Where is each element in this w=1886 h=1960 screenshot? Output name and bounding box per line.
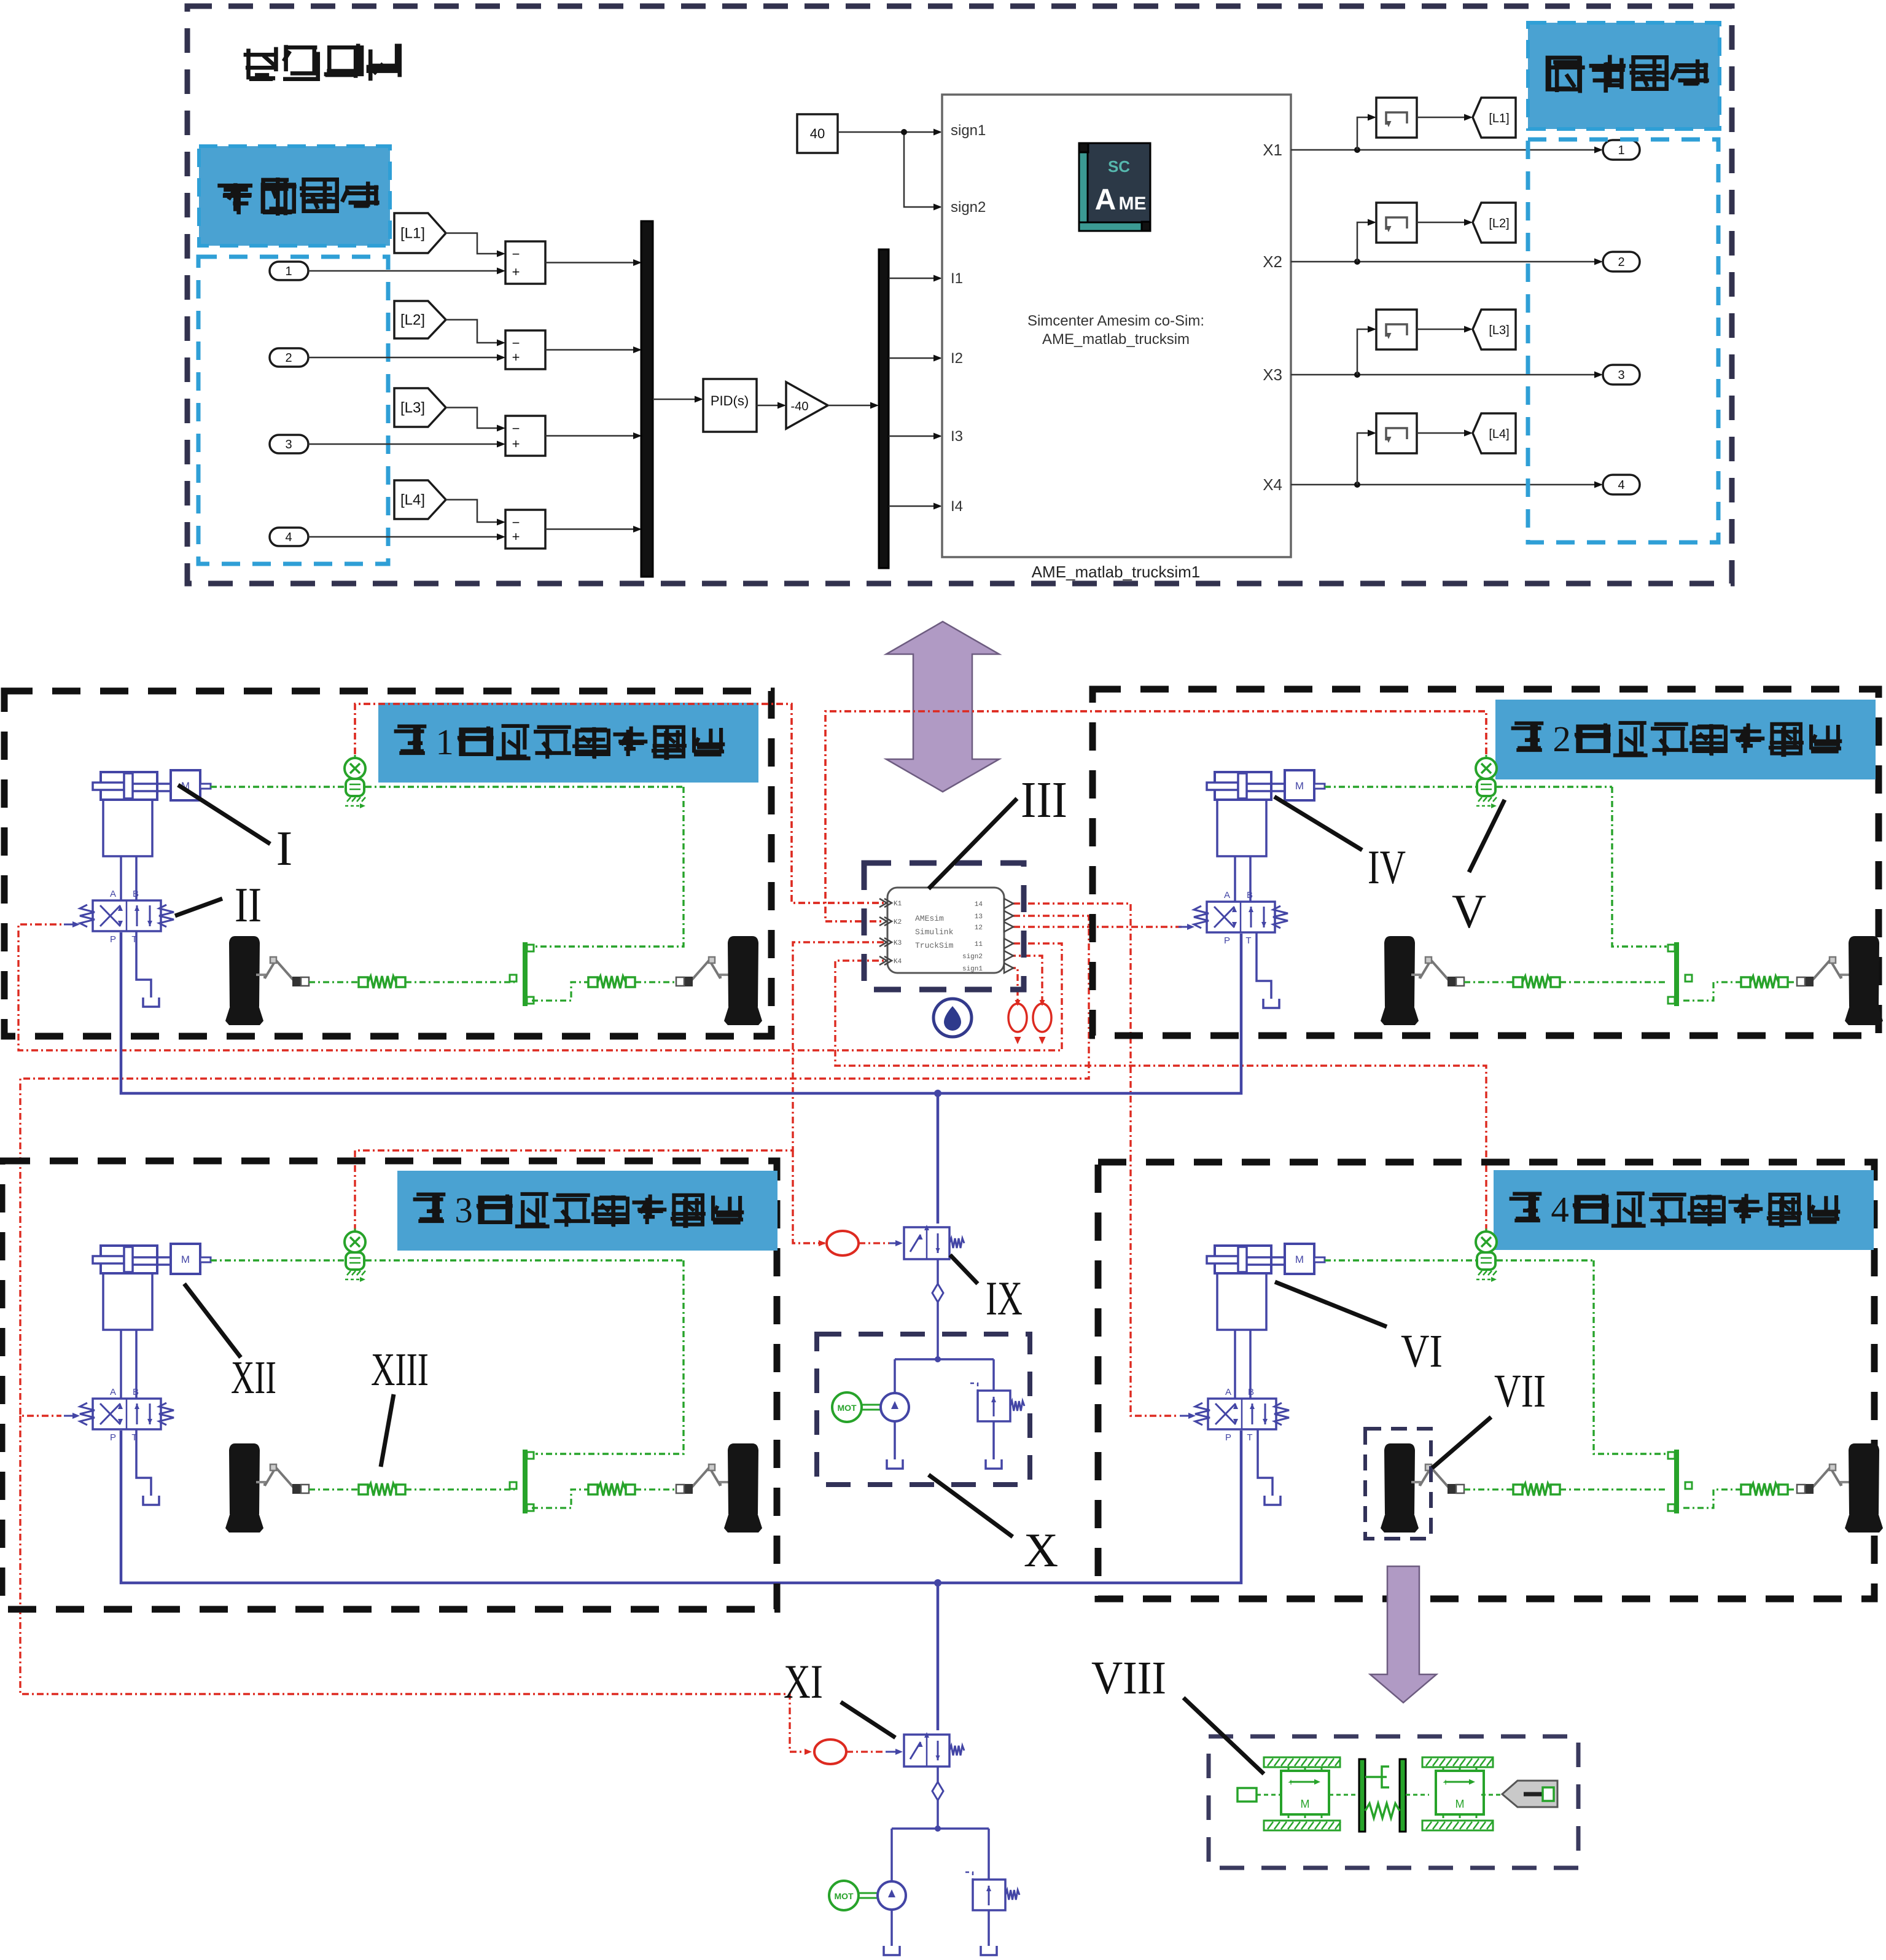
label I [178,785,270,844]
svg-text:IV: IV [1368,840,1406,894]
left wheel axle3 [229,1443,260,1514]
svg-text:PID(s): PID(s) [711,393,749,408]
tie-rod spring [1741,977,1750,987]
pipe B [135,1330,138,1399]
svg-text:−: − [512,335,520,351]
dashed region theoretical inputs [198,257,388,564]
cylinder shell [103,800,152,856]
cylinder shell [1217,800,1266,856]
svg-text:14: 14 [975,901,983,908]
PID block [703,379,757,432]
wire demux to I port [889,435,939,437]
wire goto to sum [446,320,502,343]
water drop icon [933,999,972,1037]
check valve below IX [937,1259,939,1284]
valve XI [904,1735,949,1767]
blue drop to valve IX [937,1093,940,1224]
check valve below XI [937,1767,939,1782]
svg-text:K2: K2 [894,919,902,926]
memory block 4 [1376,413,1417,453]
directional valve body [93,900,161,931]
directional valve body [93,1399,161,1429]
svg-text:[L2]: [L2] [400,312,425,329]
label X [929,1475,1013,1537]
wire branch to memory [1357,222,1373,262]
tank line valve1 [136,931,151,998]
axle 4 label box [1494,1171,1873,1249]
svg-text:B: B [1248,1387,1254,1397]
right wheel axle4 [1849,1443,1879,1514]
svg-text:−: − [512,515,520,530]
tie-rod spring [588,1485,598,1494]
steering trapezoid bracket [523,942,528,1006]
right chain axle4 [1683,1490,1741,1508]
svg-text:M: M [1455,1798,1465,1810]
svg-text:+: + [1288,1778,1293,1788]
red line TH2 over label [825,711,1486,921]
mass block M [1285,770,1314,800]
svg-text:1: 1 [285,265,292,278]
VIII end connector [1502,1781,1557,1807]
memory block 2 [1376,203,1417,243]
svg-text:−: − [512,246,520,262]
axle 1 subsystem dashed box [4,691,771,1036]
label box lilunweiyi [199,146,390,246]
svg-text:I2: I2 [951,350,963,367]
relief valve 2 [973,1880,1005,1910]
wire constant to sign1 [838,131,939,133]
svg-text:X2: X2 [1263,252,1282,271]
wire gain to demux [828,405,876,407]
svg-text:sign2: sign2 [951,199,986,216]
svg-text:2: 2 [1618,256,1624,269]
VIII spring-damper [1359,1759,1365,1832]
steering knuckle arm [1411,1482,1420,1486]
axle 2 label box [1496,700,1875,779]
svg-text:+: + [512,349,520,365]
pipe A [120,1330,122,1399]
wire memory to from tag [1417,329,1469,330]
svg-text:3: 3 [454,1190,472,1230]
directional valve body [1207,902,1275,932]
svg-text:K4: K4 [894,958,902,966]
pressure sensor [1486,755,1487,760]
pump [881,1393,909,1421]
steering detail dashed box VIII [1209,1736,1578,1868]
AME logo [1079,152,1088,231]
red line port12 to valve2 [1013,926,1182,927]
VIII left port [1237,1788,1257,1802]
steering trapezoid bracket [1674,1450,1679,1513]
relief valve [978,1391,1010,1421]
svg-text:A: A [1095,184,1116,216]
pressure sensor [354,755,356,760]
VIII mass 2 with guides [1422,1757,1493,1767]
svg-text:XII: XII [231,1352,276,1404]
svg-text:12: 12 [975,924,983,932]
svg-text:+: + [512,436,520,451]
svg-text:TruckSim: TruckSim [915,941,954,950]
mass block M [171,770,200,800]
steering knuckle arm [1411,975,1420,978]
label kongzhimokuai [244,47,276,80]
blue drop to valve XI [937,1583,940,1730]
gain -40 [786,382,828,429]
steering knuckle arm [720,1482,729,1486]
wire memory to from tag [1417,222,1469,224]
svg-text:A: A [110,1387,116,1397]
wire sum to mux [545,435,639,437]
VIII mass 1 with guides [1264,1757,1340,1767]
hydraulic cylinder body [101,1246,157,1273]
svg-text:3: 3 [1618,369,1624,382]
outport oval 4 [1603,475,1640,494]
red line TH2 sensor2 to K2 [825,711,1486,921]
wire inport to sum [308,536,502,538]
svg-text:4: 4 [1618,478,1624,492]
pilot signal oval XI [814,1739,846,1764]
inport 2 [270,348,308,367]
label XIII [381,1394,394,1467]
steering knuckle arm [256,1482,265,1486]
svg-text:M: M [1295,780,1304,792]
mux bar [641,221,653,577]
sum block 1 [505,241,545,284]
svg-text:3: 3 [285,438,292,451]
sum block 3 [505,416,545,456]
svg-text:[L2]: [L2] [1489,217,1509,230]
memory block 3 [1376,310,1417,349]
green line cylinder to sensor to bracket (axle3) [211,1259,345,1261]
hydraulic cylinder body [101,772,157,800]
pump unit X piping [895,1358,994,1361]
steering trapezoid bracket [1674,942,1679,1006]
pipe A [1234,856,1236,902]
right wheel axle1 [728,936,758,1007]
pipe A [1234,1330,1236,1399]
valve pilot feed arrow [64,924,76,926]
svg-text:P: P [1224,935,1230,946]
wire goto to sum [446,233,502,254]
interface dashed box III [864,863,1024,990]
blue supply bus upper [121,932,1241,1093]
wire sum to mux [545,262,639,264]
wire goto to sum [446,408,502,429]
dashed region actual outputs [1528,139,1718,542]
accumulator 2 [1033,1004,1051,1032]
axle 1 label box [379,703,758,782]
svg-text:B: B [1247,890,1253,900]
outport oval 1 [1603,140,1640,160]
wire inport to sum [308,443,502,445]
left wheel axle4 [1384,1443,1415,1514]
svg-text:VII: VII [1494,1365,1546,1417]
svg-text:sign2: sign2 [962,953,983,961]
motor MOT [832,1392,862,1422]
pump 2 [878,1881,906,1910]
tank line valve4 [1258,1429,1272,1496]
label VII [1432,1417,1491,1468]
svg-text:X: X [1024,1523,1058,1577]
svg-text:40: 40 [810,126,825,141]
svg-text:[L1]: [L1] [1489,112,1509,125]
wheel VII dashed box [1365,1429,1431,1539]
svg-text:II: II [235,878,262,932]
right wheel axle2 [1849,936,1879,1007]
blue supply bus lower [121,1431,1241,1583]
steering knuckle arm [256,975,265,978]
inport 4 [270,528,308,546]
label IX [950,1255,978,1284]
red line port11 to valve1 [18,924,1062,1050]
svg-text:A: A [1224,890,1230,900]
pipe B [135,856,138,900]
svg-text:AME_matlab_trucksim1: AME_matlab_trucksim1 [1032,563,1201,581]
inport 3 [270,435,308,453]
tie-rod spring [359,1485,368,1494]
wire X4 to outport [1291,484,1599,486]
pump unit XI piping [892,1827,989,1830]
valve IX [904,1227,949,1259]
label VIII [1183,1698,1264,1774]
red line port14 to valve4 [1013,904,1176,1416]
svg-text:P: P [1225,1432,1231,1443]
wire inport to sum [308,357,502,359]
svg-text:ME: ME [1119,193,1147,214]
axle 2 subsystem dashed box [1093,689,1879,1036]
goto tag [L1] [394,213,446,253]
directional valve body [1208,1399,1276,1429]
wire X2 to outport [1291,261,1599,263]
wire branch to memory [1357,117,1373,150]
wire X1 to outport [1291,149,1599,151]
interface block AMEsim/Simulink/TruckSim [887,888,1004,973]
svg-text:AMEsim: AMEsim [915,914,944,923]
svg-text:A: A [110,889,116,899]
from tag [L3] [1473,310,1516,349]
right wheel axle3 [728,1443,758,1514]
red line TH1 over label [355,704,884,903]
cylinder shell [1217,1273,1266,1330]
valve pilot feed arrow [64,1415,76,1417]
wire branch to memory [1357,329,1373,375]
red line sign1 to accumulator [1009,968,1018,1001]
pressure sensor [1486,1228,1487,1233]
axle 4 subsystem dashed box [1098,1162,1874,1599]
svg-text:VI: VI [1401,1326,1443,1377]
steering knuckle arm [720,975,729,978]
wire demux to I port [889,506,939,507]
outport oval 3 [1603,365,1640,385]
red line TH1 sensor1 to K1 [355,704,884,903]
svg-text:A: A [1225,1387,1231,1397]
svg-text:III: III [1021,771,1067,829]
pilot signal oval IX [827,1231,859,1255]
svg-text:SC: SC [1108,157,1130,176]
svg-text:[L1]: [L1] [400,225,425,242]
motor MOT 2 [829,1881,859,1910]
wire sum to mux [545,528,639,530]
red line sensor4 to K4 [835,961,1486,1231]
svg-text:sign1: sign1 [951,122,986,139]
label V [1469,800,1505,872]
svg-text:11: 11 [975,941,983,948]
svg-text:Simulink: Simulink [915,927,954,937]
green dash to left spring [309,981,359,983]
tie-rod spring [1741,1485,1750,1494]
purple exchange arrow [886,622,999,792]
svg-text:[L4]: [L4] [1489,428,1509,441]
svg-text:13: 13 [975,913,983,921]
svg-text:1: 1 [435,722,453,762]
svg-text:+: + [1443,1778,1448,1788]
svg-text:K3: K3 [894,940,902,947]
svg-text:+: + [512,529,520,544]
svg-text:M: M [1295,1254,1304,1265]
green line cylinder to sensor to bracket (axle1) [211,786,345,787]
svg-text:-40: -40 [791,400,809,413]
wire X3 to outport [1291,374,1599,376]
svg-text:4: 4 [1551,1190,1568,1230]
svg-text:X1: X1 [1263,141,1282,159]
label XI [841,1702,895,1738]
purple detail arrow [1370,1566,1436,1703]
steering knuckle arm [1841,975,1850,978]
accumulator 1 [1008,1004,1027,1032]
wire mux to PID [653,399,700,400]
pipe B [1249,1330,1252,1399]
memory block 1 [1376,98,1417,138]
goto tag [L3] [394,388,446,427]
pipe B [1249,856,1252,902]
red line port13 to valve3 [20,916,1089,1416]
svg-text:I3: I3 [951,428,963,445]
svg-text:IX: IX [986,1271,1023,1325]
svg-text:Simcenter Amesim co-Sim:: Simcenter Amesim co-Sim: [1027,313,1204,329]
label II [175,899,222,916]
constant 40 block [797,114,838,153]
svg-text:V: V [1452,884,1486,938]
tank line valve3 [136,1429,151,1496]
pipe A [120,856,122,900]
from tag [L4] [1473,413,1516,453]
sum block 4 [505,510,545,549]
svg-text:X3: X3 [1263,365,1282,384]
label VI [1275,1282,1387,1327]
svg-text:4: 4 [285,531,292,544]
label III [929,798,1017,889]
wire branch to memory [1357,433,1373,485]
mass block M [171,1244,200,1274]
demux bar [879,249,889,568]
left wheel axle1 [229,936,260,1007]
green line cylinder to sensor to bracket (axle2) [1325,786,1476,787]
red line to IX pilot [793,1150,826,1243]
cylinder shell [103,1273,152,1330]
tie-rod spring [1513,1485,1522,1494]
green line cylinder to sensor to bracket (axle4) [1325,1259,1476,1261]
power pack dashed box X [817,1334,1030,1485]
red line sign2 to accumulator [1009,956,1042,1001]
red line sensor3 to K3 [355,942,884,1231]
right chain axle2 [1683,982,1741,1001]
svg-text:XIII: XIII [371,1344,429,1396]
svg-text:[L3]: [L3] [1489,324,1509,337]
wire memory to from tag [1417,432,1469,434]
svg-text:2: 2 [285,351,292,365]
AME co-simulation block [942,95,1291,557]
valve pilot feed arrow [1179,926,1191,928]
svg-text:[L3]: [L3] [400,400,425,416]
svg-text:AME_matlab_trucksim: AME_matlab_trucksim [1042,331,1190,348]
wire goto to sum [446,500,502,523]
svg-text:K1: K1 [894,900,902,908]
hydraulic cylinder body [1215,1246,1271,1273]
red to valve IX [859,1242,889,1244]
goto tag [L4] [394,480,446,519]
wire demux to I port [889,357,939,359]
control module outer dashed box [187,6,1732,584]
red to valve XI [846,1751,886,1752]
pressure sensor [354,1228,356,1233]
outport oval 2 [1603,252,1640,271]
right chain axle3 [532,1490,588,1508]
tie-rod spring [1513,977,1522,987]
label IV [1274,797,1362,850]
inport 1 [270,262,308,280]
svg-text:XI: XI [784,1655,823,1708]
svg-text:T: T [1247,1432,1252,1443]
axle 3 label box [398,1171,777,1250]
right chain axle1 [532,982,588,1001]
svg-text:P: P [110,934,116,945]
left wheel axle2 [1384,936,1415,1007]
svg-text:2: 2 [1553,719,1570,759]
wire branch to sign2 [904,132,939,207]
svg-text:1: 1 [1618,144,1624,157]
wire memory to from tag [1417,117,1469,119]
svg-text:+: + [512,264,520,279]
label box shijiweiyi [1528,23,1720,129]
tank line valve2 [1257,932,1271,999]
red line to XI pilot [20,1416,809,1752]
svg-text:I1: I1 [951,270,963,287]
tie-rod spring [359,977,368,987]
svg-text:sign1: sign1 [962,966,983,973]
wire PID to gain [757,405,783,407]
from tag [L1] [1473,98,1516,138]
svg-text:I4: I4 [951,498,963,515]
svg-text:X4: X4 [1263,475,1282,494]
svg-text:MOT: MOT [837,1403,857,1413]
svg-text:T: T [1245,935,1251,946]
svg-text:M: M [1301,1798,1310,1810]
sum block 2 [505,330,545,369]
svg-text:MOT: MOT [834,1891,854,1901]
svg-text:VIII: VIII [1091,1652,1166,1704]
hydraulic cylinder body [1215,772,1271,800]
label XII [184,1284,241,1357]
steering knuckle arm [1841,1482,1850,1486]
wire demux to I port [889,278,939,279]
wire inport to sum [308,270,502,272]
svg-text:B: B [133,889,139,899]
wire sum to mux [545,349,639,351]
mass block M [1285,1244,1314,1274]
goto tag [L2] [394,301,446,338]
axle 3 subsystem dashed box [2,1161,777,1609]
svg-text:I: I [276,822,293,876]
